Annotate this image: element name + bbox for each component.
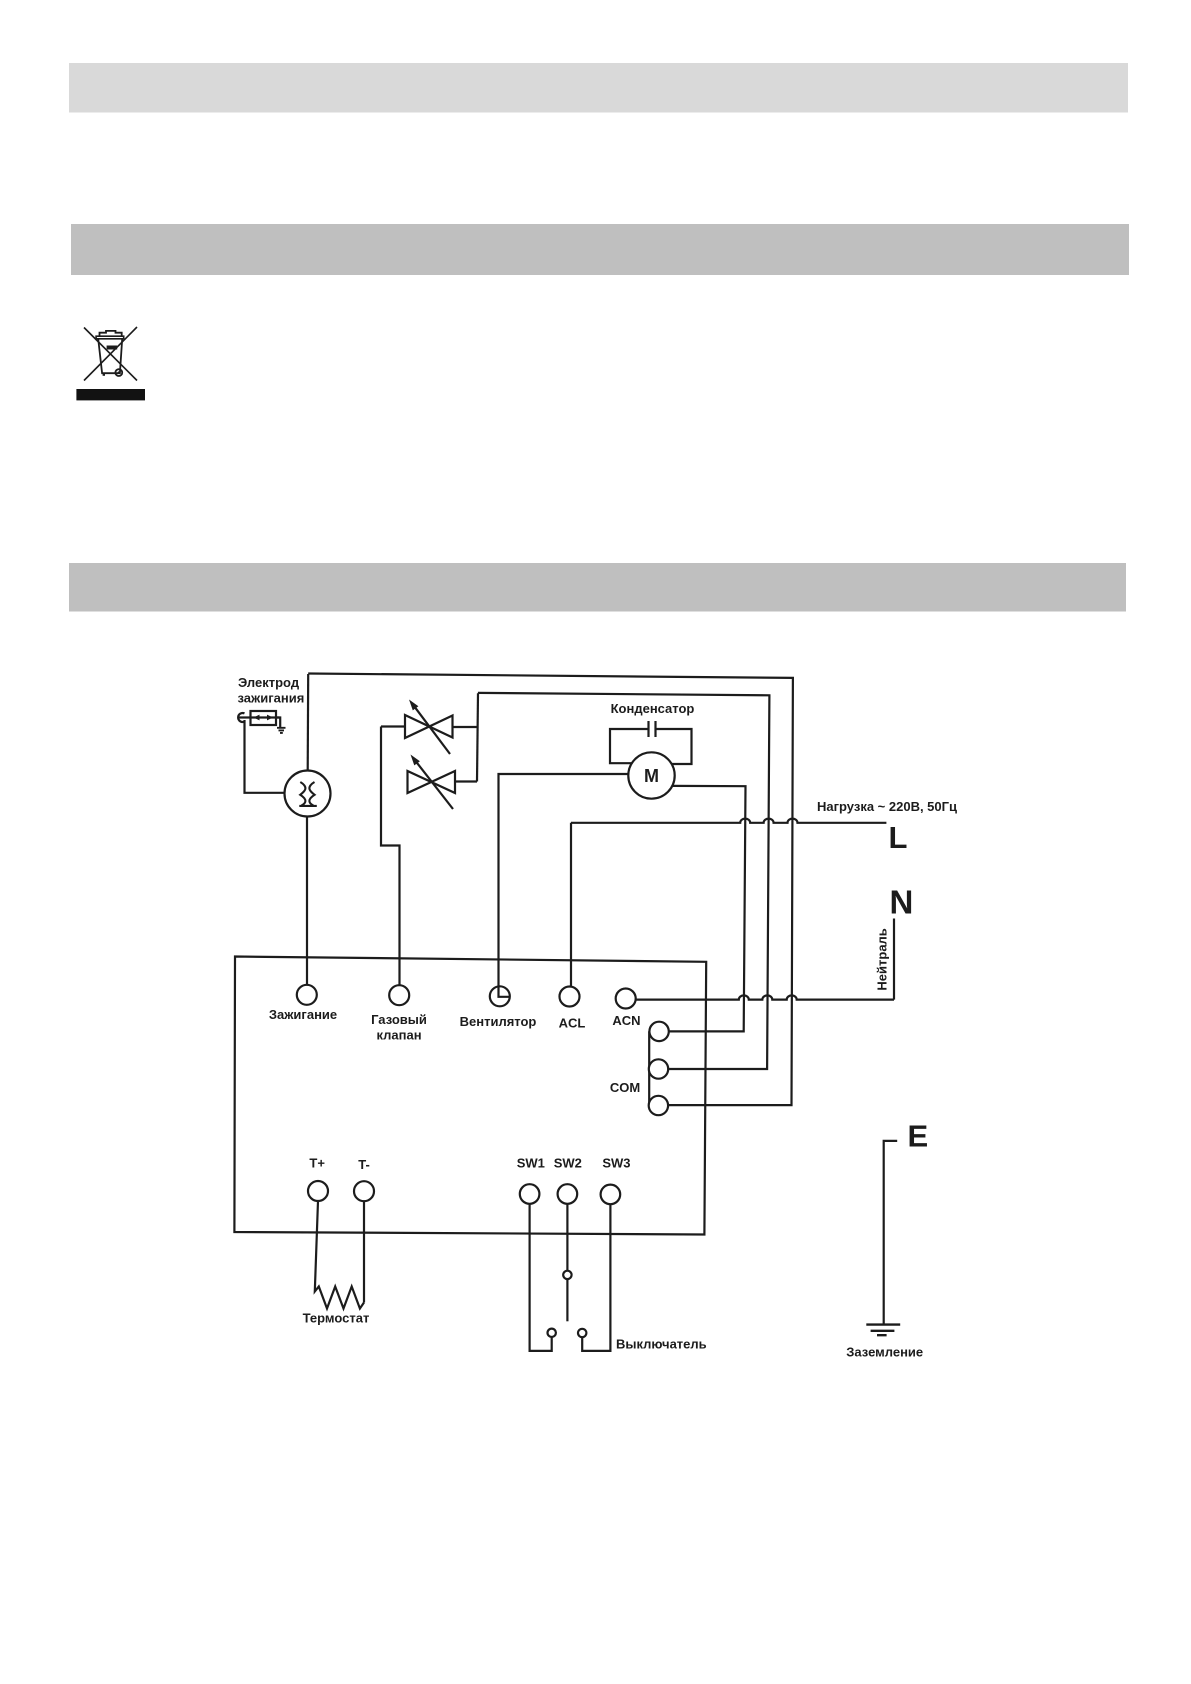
wire valves right vertical [477,693,478,781]
gas valve 1 bowtie [405,715,453,738]
COM terminal 2 [649,1059,668,1078]
wire bus B: valves right to right, down to COM2 [478,693,770,1069]
wire motor-right down to COM1 [669,786,746,1032]
wire motor left to fan terminal [499,774,629,986]
svg-text:Конденсатор: Конденсатор [611,701,695,716]
svg-text:SW2: SW2 [554,1156,582,1171]
svg-text:Электрод: Электрод [238,675,300,690]
motor circle [628,752,674,798]
switch pivot [563,1271,571,1279]
wire igniter bottom to ignition terminal [306,817,308,986]
terminal T- [354,1181,374,1201]
gas valve 2 bowtie [408,771,456,793]
terminal Вентилятор [490,986,510,1006]
switch contact a [548,1329,556,1337]
COM terminal 1 [649,1022,668,1041]
wire igniter top [307,674,310,771]
terminal SW1 [520,1184,540,1204]
svg-text:Заземление: Заземление [846,1345,923,1360]
svg-text:Зажигание: Зажигание [269,1007,337,1022]
WEEE crossed-out wheelie bin icon [84,327,137,381]
svg-text:N: N [890,884,914,921]
capacitor loop left [610,729,649,763]
ignition electrode symbol [251,711,277,725]
wire T- [363,1201,365,1302]
capacitor loop right [656,729,692,764]
wire electrode to igniter left [245,720,285,793]
COM terminal 3 [649,1096,668,1115]
svg-text:клапан: клапан [376,1027,421,1042]
igniter electrodes [300,782,305,806]
N lead below letter N [893,919,895,1000]
svg-text:зажигания: зажигания [238,690,305,705]
earth ground symbol [866,1325,900,1336]
svg-text:T-: T- [358,1157,370,1172]
capacitor C plates [649,721,656,737]
switch SW2 pole [566,1204,568,1271]
header bar 1 [69,63,1128,113]
earth stub at E [884,1141,898,1325]
fan terminal inner mark [499,986,511,996]
thermostat zigzag [315,1201,364,1309]
wire valve2 right [455,780,477,782]
terminal ACL [560,987,580,1007]
svg-text:SW3: SW3 [602,1156,630,1171]
svg-text:M: M [644,766,659,786]
terminal Зажигание [297,985,317,1005]
terminal SW3 [601,1185,621,1205]
black bar under WEEE icon [76,389,145,400]
svg-text:ACN: ACN [612,1013,640,1028]
terminal ACN [616,989,636,1009]
svg-text:Термостат: Термостат [303,1310,370,1325]
COM circles left tangent link [648,1031,650,1105]
controller box [234,957,706,1235]
terminal Газовый клапан [389,985,409,1005]
svg-text:Нейтраль: Нейтраль [875,928,890,990]
svg-text:COM: COM [610,1080,640,1095]
wire bus A: igniter top to right, down to COM3 [308,674,793,1106]
switch SW3 leg [582,1204,610,1351]
svg-text:Вентилятор: Вентилятор [460,1014,537,1029]
header bar 2 [71,224,1129,275]
N line with hops to ACN [636,995,894,999]
svg-text:SW1: SW1 [517,1156,545,1171]
header bar 3 [69,563,1126,612]
svg-text:T+: T+ [309,1156,325,1171]
svg-text:Газовый: Газовый [371,1012,427,1027]
svg-text:L: L [889,820,908,855]
switch contact b [578,1329,586,1337]
wire valve1 right [453,726,478,728]
svg-text:ACL: ACL [559,1016,586,1031]
terminal SW2 [558,1184,578,1204]
wire valves left down to gas-valve terminal [381,727,400,986]
L line with hops [571,819,886,823]
svg-text:Выключатель: Выключатель [616,1337,707,1352]
svg-text:Нагрузка ~ 220В, 50Гц: Нагрузка ~ 220В, 50Гц [817,799,957,814]
switch blade [566,1279,568,1321]
svg-text:E: E [908,1118,929,1153]
terminal T+ [308,1181,328,1201]
wire ACL up to L line [570,823,572,987]
igniter spark-gap circle [285,771,331,817]
wire valve1 left [381,725,405,727]
switch SW1 leg [530,1204,552,1351]
